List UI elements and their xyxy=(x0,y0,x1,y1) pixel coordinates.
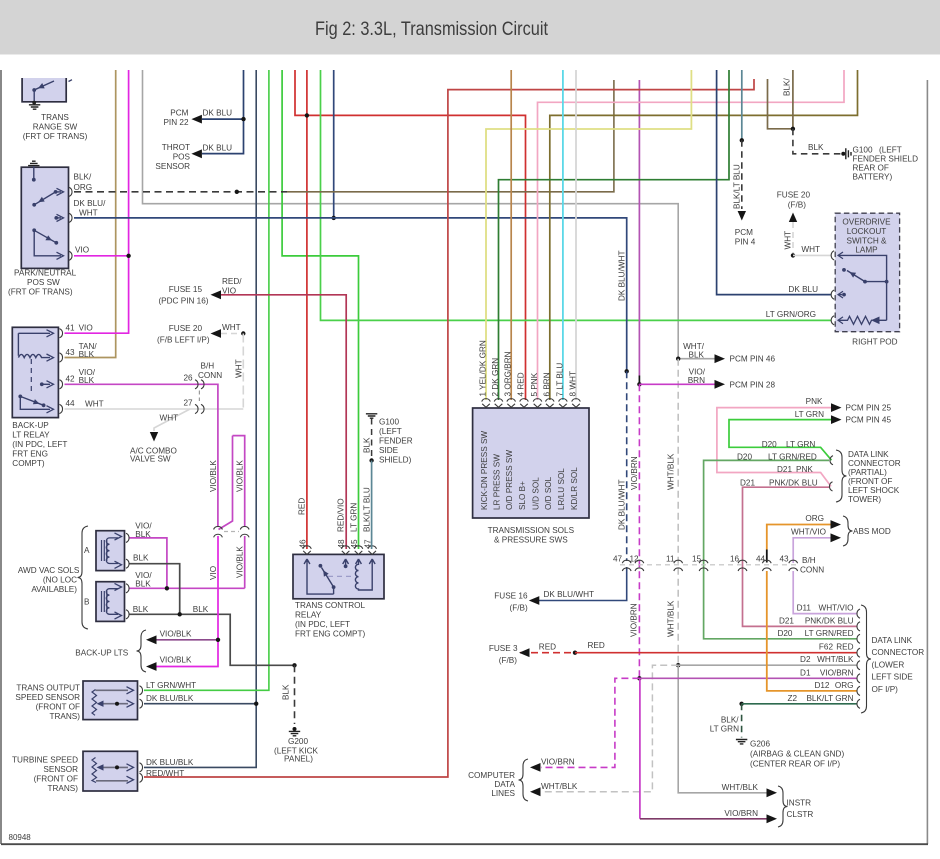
svg-text:OVERDRIVE: OVERDRIVE xyxy=(842,218,891,227)
connector arc (196.5,409) xyxy=(195,404,198,413)
junction dot (117,767.4) xyxy=(115,765,119,769)
svg-text:WHT: WHT xyxy=(235,359,244,378)
junction BLK at G200 drop xyxy=(292,663,296,667)
junction dot (56.3,217.9) xyxy=(54,216,58,220)
wire DK BLU/BLK long vertical to turbine sensor xyxy=(144,70,256,767)
junction DK BLU xyxy=(241,117,245,121)
svg-text:REAR OF: REAR OF xyxy=(853,164,889,173)
connector pin 16 xyxy=(738,560,747,563)
connector output sensor LT GRN/WHT xyxy=(140,686,143,695)
wire BLK/LT BLU to relay pin 47 xyxy=(371,461,373,550)
svg-text:(F/B): (F/B) xyxy=(788,200,806,209)
wire DK BLU/BLK output speed sensor row xyxy=(144,703,256,705)
svg-text:SENSOR: SENSOR xyxy=(43,765,78,774)
arrow computer data lines VIO/BRN xyxy=(530,763,541,772)
connector trans sols pin 2 xyxy=(494,399,503,402)
connector DLC lower F62 xyxy=(857,648,860,657)
svg-text:4 RED: 4 RED xyxy=(517,372,526,396)
svg-text:AVAILABLE): AVAILABLE) xyxy=(31,585,77,594)
wire DK BLU/WHT to FUSE 16 xyxy=(532,567,627,601)
svg-text:VALVE SW: VALVE SW xyxy=(130,454,171,463)
svg-text:BACK-UP LTS: BACK-UP LTS xyxy=(75,649,128,658)
svg-text:VIO: VIO xyxy=(222,286,236,295)
wire DK BLU vertical to THROT POS SENSOR xyxy=(202,70,244,154)
lamp resistor xyxy=(838,316,872,324)
junction dot (34.2,102.6) xyxy=(32,101,36,105)
svg-text:FUSE 16: FUSE 16 xyxy=(494,591,528,600)
wire DK GRN trans sols pin 2 rail xyxy=(499,70,730,400)
wire BLK/ elbow at top right xyxy=(768,79,793,129)
connector overdrive LT GRN/ORG xyxy=(831,316,834,325)
svg-text:46: 46 xyxy=(299,539,308,549)
svg-text:DK BLU: DK BLU xyxy=(788,285,818,294)
svg-text:PNK: PNK xyxy=(806,397,823,406)
junction VIO xyxy=(126,254,130,258)
svg-text:41: 41 xyxy=(66,324,76,333)
svg-text:RANGE SW: RANGE SW xyxy=(33,122,78,131)
wire VIO/BLK solenoid B row xyxy=(129,587,245,589)
svg-text:D21: D21 xyxy=(779,616,794,625)
svg-text:44: 44 xyxy=(66,399,76,408)
junction dot (33.8,179.7) xyxy=(32,178,36,182)
svg-text:WHT/VIO: WHT/VIO xyxy=(818,604,853,613)
connector trans sols pin 6 xyxy=(546,399,555,402)
svg-text:LT GRN: LT GRN xyxy=(710,724,739,733)
svg-text:42: 42 xyxy=(66,375,76,384)
pin arrow (133.5,690.3) xyxy=(127,687,134,694)
svg-text:26: 26 xyxy=(184,374,194,383)
arrow to BACK-UP LTS lower xyxy=(146,662,157,671)
wire DK BLU to PCM PIN 22 xyxy=(202,118,244,120)
connector pin 11 xyxy=(674,560,683,563)
arrow to PCM PIN 25 xyxy=(831,403,842,412)
junction DK BLU/BLK xyxy=(254,702,258,706)
connector pin 44 xyxy=(762,560,771,563)
junction dot (844,294.6) xyxy=(842,293,846,297)
pin arrow (121.5,564.8) xyxy=(115,561,122,568)
svg-text:BLK: BLK xyxy=(79,350,95,359)
svg-text:RIGHT POD: RIGHT POD xyxy=(852,338,897,347)
connector arc (202.5,384.3) xyxy=(201,380,204,389)
svg-text:PNK: PNK xyxy=(796,465,813,474)
wire BLK/LT BLU from top xyxy=(741,70,743,140)
svg-text:BATTERY): BATTERY) xyxy=(853,173,893,182)
svg-text:VIO/BLK: VIO/BLK xyxy=(236,546,245,578)
ground (33.8,161.2) xyxy=(28,161,39,165)
svg-text:KICK-DN PRESS SW: KICK-DN PRESS SW xyxy=(480,431,489,510)
svg-text:CONNECTOR: CONNECTOR xyxy=(872,648,925,657)
svg-text:PCM PIN 46: PCM PIN 46 xyxy=(730,355,776,364)
svg-text:DATA: DATA xyxy=(494,780,515,789)
svg-text:B/H: B/H xyxy=(201,362,215,371)
junction dot (320.4,565.8) xyxy=(319,564,323,568)
svg-text:VIO/BLK: VIO/BLK xyxy=(209,460,218,492)
wire VIO/BRN to instrument cluster arrow xyxy=(640,818,767,820)
svg-text:D11: D11 xyxy=(797,604,812,613)
wire RED/WHT turbine sensor loop to top rail xyxy=(144,79,754,777)
wire LT GRN PCM PIN 45 to data link connector xyxy=(729,420,832,461)
svg-text:WHT: WHT xyxy=(79,209,98,218)
ground G206 xyxy=(736,740,747,744)
wire WHT/BLK dashed to computer data lines xyxy=(541,665,678,792)
svg-text:WHT/VIO: WHT/VIO xyxy=(791,528,826,537)
svg-text:LEFT SIDE: LEFT SIDE xyxy=(872,673,914,682)
brace (528,759-801) xyxy=(519,759,529,801)
svg-text:5 PNK: 5 PNK xyxy=(530,372,539,396)
svg-text:FUSE 15: FUSE 15 xyxy=(169,285,203,294)
wire WHT branch to A/C combo valve sw xyxy=(154,409,190,431)
connector park/neutral VIO pin xyxy=(69,251,72,260)
pin arrow (121.5,587) xyxy=(115,583,122,590)
svg-text:TURBINE SPEED: TURBINE SPEED xyxy=(12,756,78,765)
trans output speed sensor box xyxy=(83,681,138,720)
svg-text:DK BLU/BLK: DK BLU/BLK xyxy=(146,694,194,703)
svg-text:PCM PIN 45: PCM PIN 45 xyxy=(846,416,892,425)
junction RED xyxy=(305,113,309,117)
svg-text:POS SW: POS SW xyxy=(27,278,60,287)
wire WHT/VIO D11 row to DLC xyxy=(793,571,857,614)
ground G100 left fender xyxy=(366,414,377,418)
svg-text:BLK: BLK xyxy=(808,143,824,152)
wire DK BLU/WHT stub from top xyxy=(333,70,335,218)
svg-text:27: 27 xyxy=(184,399,194,408)
svg-text:DK BLU/WHT: DK BLU/WHT xyxy=(617,480,626,531)
trans range switch box xyxy=(21,78,67,103)
svg-text:BLK: BLK xyxy=(282,684,291,700)
svg-text:BLK: BLK xyxy=(135,580,151,589)
svg-text:SWITCH &: SWITCH & xyxy=(846,236,887,245)
junction BLK/LT GRN xyxy=(739,702,743,706)
svg-text:CONN: CONN xyxy=(800,566,824,575)
wire VIO/BLK back-up lts upper xyxy=(157,639,219,641)
svg-text:WHT: WHT xyxy=(85,399,104,408)
wire BLK solenoid A xyxy=(129,564,180,615)
relay armature link xyxy=(30,359,32,394)
wire WHT relay pin 44 to B/H conn 27 xyxy=(65,408,244,410)
wire BRN trans sols pin 6 xyxy=(549,115,552,400)
svg-text:G100: G100 xyxy=(853,146,873,155)
wire BLK dashed to G100 xyxy=(793,129,841,154)
svg-text:D1: D1 xyxy=(800,668,811,677)
svg-text:SLO B+: SLO B+ xyxy=(518,481,527,510)
svg-text:(IN PDC, LEFT: (IN PDC, LEFT xyxy=(295,620,350,629)
junction WHT xyxy=(241,331,245,335)
connector solenoid A VIO/BLK xyxy=(126,533,129,542)
svg-text:WHT/BLK: WHT/BLK xyxy=(667,600,676,637)
svg-text:SHIELD): SHIELD) xyxy=(379,455,412,464)
svg-text:BLK: BLK xyxy=(363,437,372,453)
svg-text:DK BLU: DK BLU xyxy=(203,143,233,152)
ground G100 right xyxy=(846,148,851,159)
svg-text:8 WHT: 8 WHT xyxy=(569,371,578,396)
svg-text:G206: G206 xyxy=(750,740,770,749)
svg-text:LT GRN/WHT: LT GRN/WHT xyxy=(146,681,196,690)
connector trans sols pin 8 xyxy=(572,399,581,402)
wire RED dashed from FUSE 3 xyxy=(520,652,575,654)
wire ORG to ABS MOD xyxy=(767,525,831,550)
AWD solenoid A box xyxy=(96,531,125,571)
arrow computer data lines WHT/BLK xyxy=(530,787,541,796)
wire DK BLU/WHT dashed to B/H pin 47 xyxy=(626,371,628,561)
junction dot (34.2,230.3) xyxy=(32,228,36,232)
svg-text:VIO/BLK: VIO/BLK xyxy=(236,460,245,492)
junction VIO/BRN PCM28 xyxy=(637,382,641,386)
trans control relay box xyxy=(293,554,384,598)
wire PNK PCM PIN 25 to data link connector xyxy=(717,408,831,487)
svg-text:WHT/BLK: WHT/BLK xyxy=(722,783,759,792)
wire BLK/ORG solid to top xyxy=(287,80,614,192)
wire VIO/BLK hairpin right leg xyxy=(233,436,245,527)
connector relay pin at y=409 xyxy=(60,404,63,413)
svg-text:TRANS CONTROL: TRANS CONTROL xyxy=(295,601,366,610)
connector DLC lower Z2 xyxy=(857,699,860,708)
pin arrow (63.5,191.9) xyxy=(57,188,64,195)
brace (778,786-827) xyxy=(778,786,788,827)
turbine speed sensor box xyxy=(83,751,138,791)
svg-text:FENDER SHIELD: FENDER SHIELD xyxy=(853,155,919,164)
svg-text:43: 43 xyxy=(66,348,76,357)
svg-text:BLK: BLK xyxy=(79,376,95,385)
svg-text:BLK: BLK xyxy=(133,554,149,563)
connector trans sols pin 3 xyxy=(507,399,516,402)
wire BLK/ vertical at top right xyxy=(792,70,794,129)
wire VIO/BRN dashed to computer data lines xyxy=(541,678,639,767)
wire RED rail to trans sols pin 4 xyxy=(295,70,526,400)
svg-text:FUSE 3: FUSE 3 xyxy=(489,644,518,653)
wire BLK/LT GRN dashed to G206 xyxy=(741,704,743,738)
svg-text:(AIRBAG & CLEAN GND): (AIRBAG & CLEAN GND) xyxy=(750,750,844,759)
transmission sols & pressure sws box xyxy=(473,408,589,518)
connector solenoid B VIO/BLK xyxy=(126,584,129,593)
svg-text:COMPT): COMPT) xyxy=(12,459,45,468)
junction at G100 xyxy=(841,152,845,156)
svg-text:DATA LINK: DATA LINK xyxy=(848,450,889,459)
connector relay pin at y=333.2 xyxy=(60,329,63,338)
svg-text:BACK-UP: BACK-UP xyxy=(12,421,49,430)
svg-text:Fig 2: 3.3L, Transmission Circ: Fig 2: 3.3L, Transmission Circuit xyxy=(315,18,548,40)
svg-text:7 LT BLU: 7 LT BLU xyxy=(555,363,564,397)
arrow to FUSE 20 xyxy=(789,213,797,223)
svg-text:1 YEL/DK GRN: 1 YEL/DK GRN xyxy=(479,340,488,396)
svg-text:DK BLU/WHT: DK BLU/WHT xyxy=(544,590,595,599)
relay switch xyxy=(20,396,50,409)
svg-text:BRN: BRN xyxy=(688,376,705,385)
wire WHT/BLK to instrument cluster xyxy=(678,665,766,793)
svg-text:VIO: VIO xyxy=(75,245,89,254)
svg-text:BLK: BLK xyxy=(689,350,705,359)
pin arrow (121.5,615.5) xyxy=(115,612,122,619)
switch arm 1 xyxy=(34,192,55,205)
pin arrow (53.5,384.3) xyxy=(47,381,54,388)
svg-text:CONN: CONN xyxy=(198,371,222,380)
svg-text:BLK/: BLK/ xyxy=(74,172,92,181)
svg-text:B/H: B/H xyxy=(802,556,816,565)
svg-text:(NO LOC: (NO LOC xyxy=(43,575,77,584)
svg-text:LT GRN: LT GRN xyxy=(786,440,815,449)
svg-text:TRANS OUTPUT: TRANS OUTPUT xyxy=(16,683,80,692)
svg-text:RED: RED xyxy=(588,641,605,650)
junction dot (865,281.6) xyxy=(863,280,867,284)
wire VIO/BRN to PCM PIN 28 xyxy=(639,383,716,385)
svg-text:PNK/DK BLU: PNK/DK BLU xyxy=(769,479,818,488)
svg-text:VIO/BRN: VIO/BRN xyxy=(724,809,758,818)
svg-text:(FRONT OF: (FRONT OF xyxy=(848,477,892,486)
connector trans sols pin 7 xyxy=(559,399,568,402)
wire VIO: vertical x128 to relay pin41 xyxy=(65,70,129,333)
wire WHT trans sols pin 8 xyxy=(575,70,577,400)
connector DLC lower D1 xyxy=(857,674,860,683)
connector pin 47 xyxy=(622,560,631,563)
svg-text:(F/B): (F/B) xyxy=(499,656,517,665)
svg-text:D20: D20 xyxy=(777,629,792,638)
junction VIO xyxy=(216,638,220,642)
svg-text:VIO/BLK: VIO/BLK xyxy=(160,655,192,664)
wire VIO/BLK relay pin42 through B/H conn 26 xyxy=(65,384,218,527)
wire segment (1, 844.2)-(928, 844.2) xyxy=(1,843,928,845)
svg-text:ORG: ORG xyxy=(74,183,93,192)
svg-text:TRANS): TRANS) xyxy=(48,784,79,793)
back-up lt relay box xyxy=(12,327,58,417)
svg-text:RED/WHT: RED/WHT xyxy=(146,769,184,778)
svg-text:FUSE 20: FUSE 20 xyxy=(777,191,811,200)
connector DLC partial pin D20 xyxy=(830,456,833,465)
arrow to ABS MOD ORG xyxy=(831,520,842,529)
connector DLC lower D12 xyxy=(857,686,860,695)
arrow to FUSE 16 xyxy=(529,596,540,605)
svg-text:(F/B LEFT I/P): (F/B LEFT I/P) xyxy=(157,335,210,344)
wire WHT/BLK from top to PCM46 junction xyxy=(143,70,679,359)
svg-text:ORG: ORG xyxy=(805,514,824,523)
connector solenoid B BLK xyxy=(126,610,129,619)
svg-text:WHT: WHT xyxy=(801,245,820,254)
svg-text:BLK/: BLK/ xyxy=(783,78,792,96)
svg-text:BLK: BLK xyxy=(135,530,151,539)
svg-text:44: 44 xyxy=(756,554,766,563)
wire TAN/BLK: relay pin43 up to top xyxy=(65,70,116,358)
svg-text:VIO/: VIO/ xyxy=(135,571,152,580)
svg-text:WHT: WHT xyxy=(160,413,179,422)
svg-text:COMPUTER: COMPUTER xyxy=(468,771,515,780)
wire PNK/DK BLU D21 rows xyxy=(743,487,858,626)
pin arrow (133.5,703.7) xyxy=(127,700,134,707)
svg-text:LR PRESS SW: LR PRESS SW xyxy=(493,454,502,510)
wire VIO/BRN from top xyxy=(638,80,640,376)
wire BLK/LT BLU dashed to PCM PIN 4 xyxy=(741,140,743,209)
svg-text:Z2: Z2 xyxy=(787,694,797,703)
junction dot (20.3,396.4) xyxy=(18,395,22,399)
connector turbine DK BLU/BLK xyxy=(140,763,143,772)
AWD solenoid B box xyxy=(96,582,125,622)
svg-text:3 ORG/BRN: 3 ORG/BRN xyxy=(504,351,513,396)
wire PNK trans sols pin 5 rail xyxy=(538,70,845,400)
connector DLC lower D20 xyxy=(857,634,860,643)
svg-text:LT GRN/ORG: LT GRN/ORG xyxy=(766,310,816,319)
relay internals xyxy=(304,559,334,594)
arrow to BACK-UP LTS upper xyxy=(146,635,157,644)
svg-text:12: 12 xyxy=(630,554,640,563)
svg-text:B: B xyxy=(84,598,90,607)
switch pin DK BLU/WHT xyxy=(56,217,61,219)
svg-text:F62: F62 xyxy=(819,643,834,652)
arrow INSTR CLSTR VIO/BRN xyxy=(767,814,778,823)
svg-text:15: 15 xyxy=(692,554,702,563)
svg-text:6 BRN: 6 BRN xyxy=(542,372,551,396)
junction RED xyxy=(573,651,577,655)
connector trans sols pin 4 xyxy=(520,399,529,402)
relay coil xyxy=(18,354,50,357)
wire BLK dashed from G100 xyxy=(371,419,373,459)
junction WHT/BLK xyxy=(676,357,680,361)
wire BLK/ORG dashed from park/neutral xyxy=(74,191,287,193)
title bar xyxy=(0,0,940,55)
svg-text:OF I/P): OF I/P) xyxy=(872,685,899,694)
junction BLK xyxy=(178,612,182,616)
inline connector (244.7,529.5) xyxy=(240,526,249,529)
svg-text:VIO: VIO xyxy=(79,324,93,333)
svg-text:FRT ENG: FRT ENG xyxy=(12,450,48,459)
svg-text:BLK: BLK xyxy=(133,605,149,614)
junction at G200 ground xyxy=(293,727,297,731)
svg-text:BLK/: BLK/ xyxy=(721,715,739,724)
junction DK BLU/WHT splice xyxy=(625,369,629,373)
wire LT BLU trans sols pin 7 xyxy=(562,70,564,400)
connector trans sols pin 5 xyxy=(533,399,542,402)
wire VIO/BLK below connector to solenoids xyxy=(244,536,246,588)
wire BLK/LT GRN Z2 row to DLC xyxy=(742,703,857,705)
connector trans sols pin 1 xyxy=(482,399,491,402)
wire VIO/BRN dashed to D1 xyxy=(638,384,640,678)
svg-text:BLK/LT BLU: BLK/LT BLU xyxy=(363,487,372,532)
svg-text:RED/VIO: RED/VIO xyxy=(337,498,346,532)
svg-text:DATA LINK: DATA LINK xyxy=(872,636,913,645)
arrow to PCM PIN 4 xyxy=(738,211,746,221)
wire DK BLU/WHT from park/neutral switch xyxy=(74,218,627,371)
svg-text:ABS MOD: ABS MOD xyxy=(853,527,891,536)
junction VIO/BRN D1 xyxy=(637,676,641,680)
connector solenoid A BLK xyxy=(126,559,129,568)
junction WHT xyxy=(791,253,795,257)
svg-text:POS: POS xyxy=(173,152,191,161)
connector relay pin at y=357.5 xyxy=(60,353,63,362)
svg-text:DK BLU: DK BLU xyxy=(203,109,233,118)
wire VIO/BLK solenoid A xyxy=(129,538,167,588)
svg-text:TRANS: TRANS xyxy=(41,113,69,122)
svg-text:AWD VAC SOLS: AWD VAC SOLS xyxy=(18,566,80,575)
svg-text:KD/LR SOL: KD/LR SOL xyxy=(570,467,579,510)
svg-text:G100: G100 xyxy=(379,417,399,426)
svg-text:(FRT OF TRANS): (FRT OF TRANS) xyxy=(8,287,73,296)
svg-text:D2: D2 xyxy=(800,655,811,664)
connector relay pin at y=384.3 xyxy=(60,380,63,389)
junction dot (333.6,587.1) xyxy=(332,585,336,589)
svg-text:RED: RED xyxy=(836,643,853,652)
wire WHT/BLK D2 row to DLC xyxy=(678,664,857,666)
svg-text:LT RELAY: LT RELAY xyxy=(12,431,50,440)
switch pin BLK/ORG xyxy=(56,191,61,193)
wire RED F62 row to DLC xyxy=(575,652,857,654)
svg-text:PCM: PCM xyxy=(735,228,753,237)
wire LT GRN/RED D20 rows xyxy=(704,460,857,638)
wire ORG D12 row to DLC xyxy=(767,571,857,691)
arrow to FUSE 20 xyxy=(211,329,222,338)
svg-text:D20: D20 xyxy=(762,440,777,449)
wire splice tick xyxy=(638,376,640,383)
pin arrow (63.5,217.9) xyxy=(57,214,64,221)
overdrive lockout switch & lamp box xyxy=(835,213,899,332)
svg-text:(F/B): (F/B) xyxy=(509,603,527,612)
svg-text:WHT/BLK: WHT/BLK xyxy=(817,655,854,664)
connector output sensor DK BLU/BLK xyxy=(140,699,143,708)
